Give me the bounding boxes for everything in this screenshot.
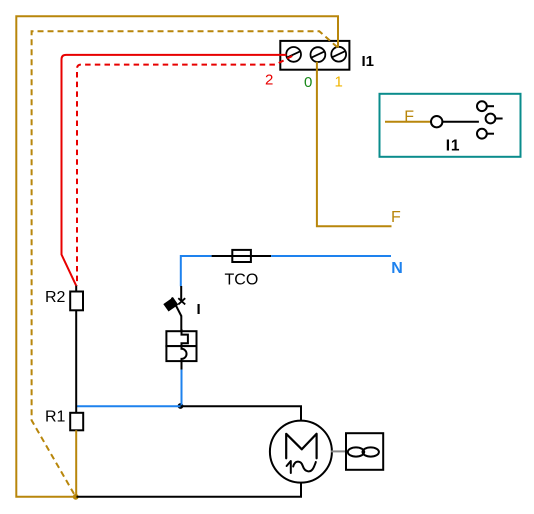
resistor R2: [70, 292, 83, 311]
motor sine glyph: [293, 462, 316, 472]
wire switch to protector: [180, 316, 182, 333]
wire R2 to R1: [75, 310, 77, 413]
svg-text:R2: R2: [45, 289, 66, 306]
screw terminal 0: [311, 47, 326, 62]
wire black junction to motor: [181, 406, 301, 421]
junction dot: [178, 403, 184, 409]
svg-text:I1: I1: [362, 53, 375, 70]
olive lead in detail box: [385, 121, 431, 123]
run capacitor box: [346, 433, 383, 470]
wire F dashed olive: [32, 31, 338, 497]
infinity loop left: [348, 447, 364, 456]
wire black through fuse TCO: [212, 255, 272, 257]
switch position contact middle: [486, 114, 496, 124]
motor protector lower box: [166, 346, 196, 361]
wire blue protector to junction: [181, 370, 183, 407]
switch I arm: [172, 298, 182, 317]
motor M glyph: [286, 434, 316, 459]
olive junction dot: [73, 494, 79, 500]
svg-text:I: I: [197, 301, 201, 318]
switch common contact circle: [431, 116, 442, 127]
fuse TCO: [232, 250, 251, 262]
motor protector upper box: [166, 331, 196, 346]
svg-text:0: 0: [304, 74, 312, 91]
wire N blue to label: [271, 255, 391, 257]
protector internal path: [182, 329, 188, 370]
wire 2 solid red: [62, 55, 287, 286]
svg-text:F: F: [391, 209, 401, 226]
svg-text:N: N: [391, 260, 403, 277]
switch position contact bottom: [477, 129, 487, 139]
screw terminal 1: [331, 47, 346, 62]
wire black above switch I: [180, 286, 182, 300]
resistor R1: [70, 413, 83, 431]
svg-text:2: 2: [265, 71, 273, 88]
terminal block I1: [280, 41, 349, 70]
wire blue horizontal to junction: [76, 405, 180, 407]
wire 0 olive from middle terminal to F end: [317, 62, 392, 227]
motor 1 glyph: [287, 461, 291, 473]
lamp switch detail box (teal): [380, 94, 521, 157]
wire N blue from TCO corner: [181, 256, 212, 286]
wire F solid olive outer loop: [16, 16, 338, 497]
wire 2 dashed red: [77, 56, 292, 286]
svg-text:F: F: [404, 109, 414, 126]
wire black motor bottom to olive dot: [77, 482, 302, 497]
wire gray motor to capacitor: [331, 450, 346, 452]
switch I actuator flag: [164, 298, 177, 310]
infinity loop right: [363, 447, 379, 456]
motor M1 circle: [270, 421, 332, 483]
screw terminal 2: [286, 47, 301, 62]
svg-text:R1: R1: [45, 409, 66, 426]
svg-text:TCO: TCO: [225, 272, 259, 289]
svg-text:I1: I1: [446, 138, 461, 155]
svg-text:1: 1: [335, 74, 343, 91]
switch position contact top: [477, 101, 487, 111]
wire olive R1 to corner dot: [75, 430, 77, 496]
switch I contact cross: [178, 298, 185, 304]
wire red lines to R2: [75, 286, 77, 292]
switch arm: [443, 121, 479, 123]
